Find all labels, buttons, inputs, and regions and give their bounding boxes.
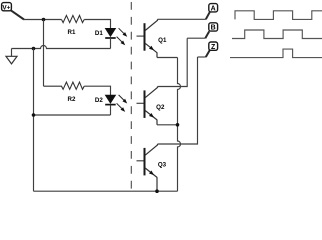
D2 light emission arrow lower xyxy=(117,103,126,112)
wire D2 return to ground net xyxy=(34,114,111,116)
wire ground net vertical xyxy=(33,49,35,192)
wire Q2 collector to B net xyxy=(158,38,188,86)
wire D2 cathode down xyxy=(110,105,112,115)
svg-text:A: A xyxy=(211,5,216,12)
node B terminal box xyxy=(209,23,218,32)
svg-text:R2: R2 xyxy=(68,96,76,103)
waveform A xyxy=(235,11,322,20)
transistor Q3 xyxy=(137,144,158,191)
wire A lead diagonal xyxy=(206,12,210,19)
wire bottom ground rail xyxy=(34,190,178,192)
node Z terminal box xyxy=(209,42,218,51)
D2 light emission arrow upper xyxy=(119,95,128,104)
ground xyxy=(6,49,17,64)
junction V+ rail / R2 branch xyxy=(42,18,46,22)
svg-text:Q1: Q1 xyxy=(158,37,167,44)
optical isolation dashed line xyxy=(130,0,132,193)
transistor Q1 xyxy=(137,19,158,57)
svg-text:D2: D2 xyxy=(95,97,103,104)
waveform B xyxy=(232,30,322,39)
svg-text:B: B xyxy=(211,25,216,32)
svg-text:Z: Z xyxy=(211,44,216,51)
LED D2 xyxy=(105,95,116,105)
svg-text:V+: V+ xyxy=(2,4,10,11)
wire Z net horizontal xyxy=(198,56,206,58)
junction Q3 emitter / ground rail xyxy=(155,189,159,193)
wire D1 cathode down xyxy=(110,38,112,49)
wire B lead diagonal xyxy=(205,31,209,38)
wire Q1 emitter run to emitter net xyxy=(157,57,178,59)
wire Z lead diagonal xyxy=(206,50,210,57)
transistor Q2 xyxy=(137,87,158,125)
LED D1 xyxy=(105,28,116,38)
wire V+ lead diagonal xyxy=(11,10,24,19)
wire branch down to R2 row xyxy=(43,20,45,87)
D1 light emission arrow lower xyxy=(117,37,126,46)
wire emitter net vertical (hops over Q2,Q3 collector wires) xyxy=(178,58,181,192)
node A terminal box xyxy=(209,4,218,13)
waveform Z xyxy=(230,49,322,58)
wire Q1 collector to A xyxy=(158,18,206,20)
svg-text:D1: D1 xyxy=(95,30,103,37)
node V+ terminal box xyxy=(2,3,12,12)
D1 light emission arrow upper xyxy=(119,28,128,37)
svg-text:Q2: Q2 xyxy=(156,104,165,111)
wire Q3 collector to Z net xyxy=(158,57,198,144)
wire D1 return to ground (hop over branch wire) xyxy=(12,46,111,49)
junction Q2 emitter / emitter net xyxy=(176,123,180,127)
junction ground net xyxy=(32,47,36,51)
resistor R2 xyxy=(44,82,85,89)
wire B net horizontal xyxy=(187,37,205,39)
wire V+ rail to R1 xyxy=(24,19,62,21)
wire Q2 emitter to emitter net xyxy=(157,124,178,126)
wire R2 to D2 xyxy=(84,86,110,95)
junction D2 return / ground net xyxy=(32,113,36,117)
resistor R1 xyxy=(62,15,85,22)
svg-text:R1: R1 xyxy=(68,29,76,36)
wire R1 to D1 xyxy=(84,20,110,29)
svg-text:Q3: Q3 xyxy=(158,162,167,169)
